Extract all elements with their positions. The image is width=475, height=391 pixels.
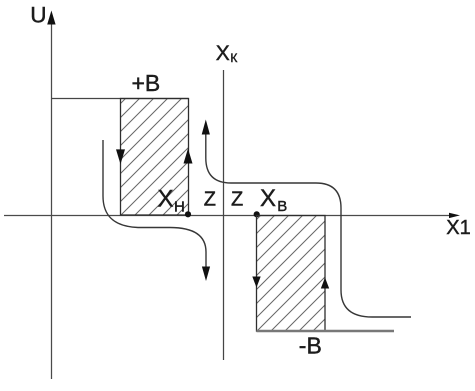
svg-text:X: X	[260, 185, 276, 212]
node dot X_H	[185, 211, 191, 217]
right trajectory S-curve (up to +B level, down to -B level)	[206, 134, 411, 317]
up arrow on upper rect right edge	[184, 149, 193, 164]
svg-text:+B: +B	[132, 70, 161, 96]
axis X1 (horizontal)	[4, 215, 450, 217]
up arrowhead of right trajectory	[202, 120, 210, 135]
axis X1 arrowhead	[449, 213, 460, 218]
down arrow on lower rect left edge	[252, 277, 260, 288]
left trajectory S-curve (from +B branch down through hysteresis zone)	[103, 140, 206, 267]
+B level line	[51, 98, 189, 100]
up arrow on lower rect right edge	[321, 278, 329, 289]
svg-text:-B: -B	[299, 333, 322, 359]
svg-text:Н: Н	[174, 199, 185, 216]
svg-text:X: X	[158, 186, 174, 213]
axis U arrowhead	[47, 11, 55, 25]
lower rectangle outline	[257, 216, 326, 332]
upper rectangle outline	[121, 99, 189, 216]
svg-text:X: X	[216, 42, 230, 65]
svg-text:U: U	[30, 2, 46, 27]
down arrowhead of left trajectory	[202, 267, 210, 282]
lower rectangle hatch fill	[257, 216, 326, 332]
node dot X_B	[254, 211, 260, 217]
svg-text:В: В	[277, 198, 287, 215]
upper rectangle hatch fill	[121, 99, 189, 216]
down arrow on upper rect left edge	[116, 149, 125, 164]
svg-text:Z: Z	[231, 189, 243, 211]
axis U (vertical)	[51, 24, 53, 379]
svg-text:Z: Z	[204, 189, 216, 211]
svg-text:X1: X1	[446, 217, 470, 239]
axis Xk (vertical)	[223, 70, 225, 360]
-B level line (thick, extends right of lower rect)	[257, 330, 395, 333]
svg-text:К: К	[230, 51, 237, 65]
